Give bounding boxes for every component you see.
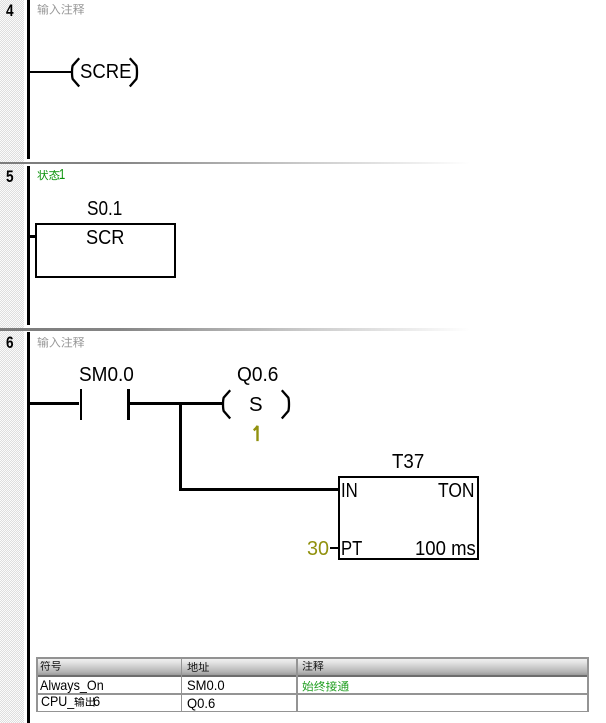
label 100 ms — [415, 539, 476, 559]
coil SCRE right paren — [128, 57, 140, 88]
symbol Always_On — [40, 678, 104, 692]
pin stub 30 to PT — [330, 547, 338, 550]
gutter column — [0, 0, 24, 723]
address Q0.6 — [187, 696, 215, 710]
table header bottom border — [36, 675, 588, 677]
symbol table header background — [38, 658, 588, 674]
column separator 2 — [296, 657, 298, 713]
wire rail to contact SM0.0 — [30, 402, 79, 405]
timer box T37 TON — [338, 476, 480, 559]
pin value 30 — [307, 539, 329, 559]
coil S right paren — [280, 389, 292, 420]
network number 6 — [6, 334, 14, 351]
contact SM0.0 right bar — [127, 389, 129, 420]
wire contact to coil S — [130, 402, 223, 405]
label Q0.6 — [237, 365, 278, 385]
SCR box label — [86, 228, 124, 248]
table right border — [587, 657, 589, 713]
network 5 title digit 1 — [59, 167, 65, 182]
label S0.1 — [87, 199, 122, 219]
network 5 title 状态 — [37, 170, 61, 183]
header 符号 — [40, 661, 63, 673]
coil S left paren — [220, 389, 232, 420]
coil SCRE label — [80, 62, 132, 82]
network 6 comment 输入注释 — [37, 337, 86, 350]
label T37 — [392, 452, 424, 472]
label SM0.0 — [79, 365, 134, 385]
left power rail (network 4) — [27, 0, 30, 159]
left power rail (network 5) — [27, 166, 30, 326]
header 地址 — [187, 662, 210, 675]
network number 5 — [6, 168, 14, 185]
branch wire to timer IN — [179, 488, 337, 491]
network 4 comment 输入注释 — [37, 4, 86, 17]
pin PT — [341, 539, 362, 559]
network number 4 — [6, 2, 14, 19]
SCR box — [35, 223, 176, 278]
address SM0.0 — [187, 678, 225, 692]
network separator — [0, 328, 606, 330]
table bottom border — [36, 711, 588, 713]
comment 始终接通 — [302, 681, 350, 694]
header 注释 — [302, 661, 325, 673]
branch wire down — [179, 403, 182, 491]
column separator 1 — [181, 657, 183, 713]
table left border — [36, 657, 38, 713]
pin IN — [341, 481, 358, 501]
network separator — [0, 162, 606, 164]
wire stub to SCR box — [30, 235, 37, 238]
table row separator — [36, 693, 588, 695]
coil SCRE left paren — [69, 57, 81, 88]
label TON — [438, 481, 475, 501]
table top border — [36, 657, 588, 659]
operand count 1 — [253, 425, 261, 443]
symbol CPU_输出6 — [41, 694, 74, 708]
left power rail (network 6) — [27, 332, 30, 723]
wire to coil SCRE — [30, 71, 73, 74]
contact SM0.0 left bar — [80, 389, 82, 420]
coil S label — [249, 395, 263, 415]
